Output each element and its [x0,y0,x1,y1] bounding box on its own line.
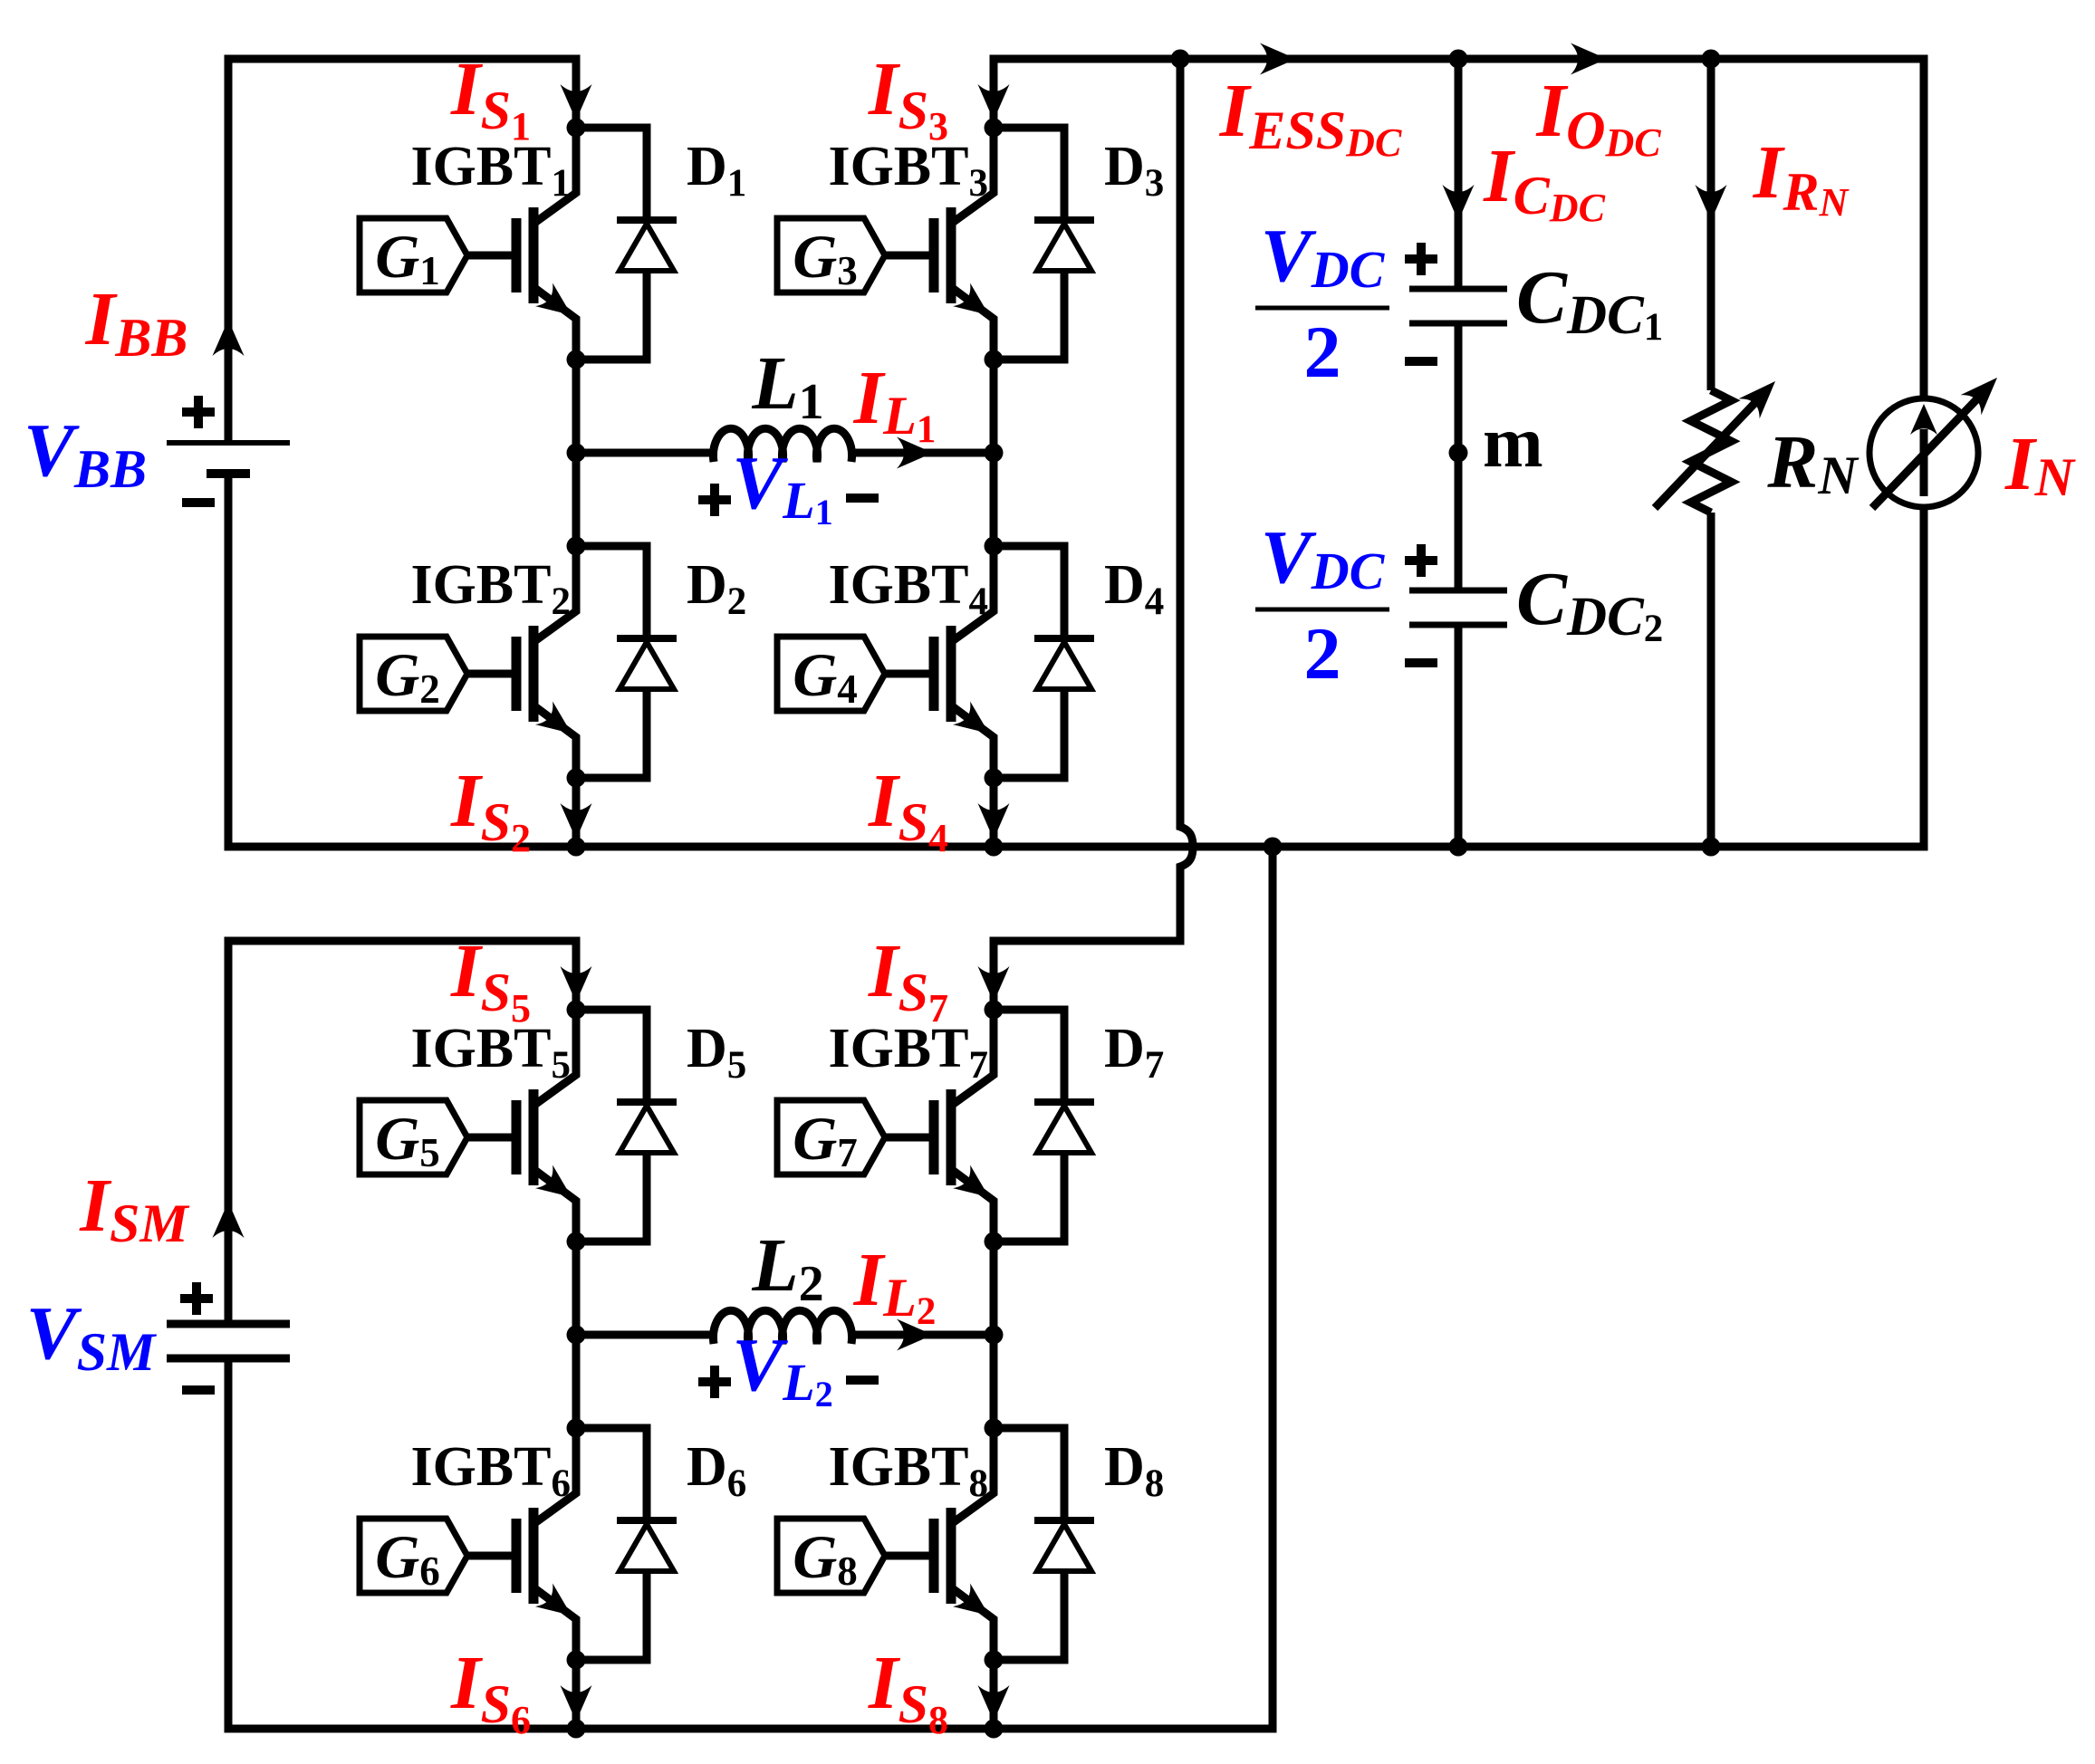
node: emitter of IGBT8 [985,1651,1004,1670]
wire: battery VSM + up, along bottom-bridge top bus, down to S5 [228,941,576,1324]
svg-text:IGBT4: IGBT4 [828,554,988,623]
node: leg8 on bottom bus [985,1720,1004,1739]
gate flag G6 [360,1519,467,1593]
node m (DC midpoint) [1449,444,1468,463]
current arrow IRN (down) [1696,185,1727,221]
svg-text:m: m [1483,403,1543,483]
fraction bar lower [1255,608,1389,612]
node: return link on bottom bus [1264,838,1283,857]
transistor IGBT2 (IGBT symbol) [467,546,576,778]
svg-text:IGBT3: IGBT3 [828,136,988,205]
node: leg6 on bottom bus [567,1720,586,1739]
node: leg1 midpoint (L1 left) [567,444,586,463]
wire: leg7 midpoint segment [990,1242,998,1428]
diode D2 (freewheeling, antiparallel) [576,546,677,778]
battery VSM minus sign [182,1385,215,1395]
IN variability arrow (diagonal) [1872,378,1997,508]
node: collector of IGBT5 [567,1001,586,1020]
VL2 plus sign [698,1366,731,1398]
wire: battery VBB - down, along bottom bus, up to IN branch [228,474,1924,847]
battery VSM (supercap module) [167,1324,290,1358]
transistor IGBT3 (IGBT symbol) [885,128,994,360]
gate flag G7 [777,1100,885,1174]
current arrow IL1 (right) [897,437,933,469]
node: collector of IGBT3 [985,119,1004,138]
node: emitter of IGBT1 [567,350,586,369]
VL1 minus sign [846,494,879,503]
battery VBB minus sign [182,498,215,507]
transistor IGBT4 (IGBT symbol) [885,546,994,778]
current arrow IS8 (down) [978,1685,1010,1721]
wire: L1 left lead [576,449,717,457]
transistor IGBT8 (IGBT symbol) [885,1428,994,1660]
wire: leg5 midpoint segment [572,1242,581,1428]
inductor L2 [713,1310,851,1344]
node: leg5 midpoint (L2 left) [567,1326,586,1345]
gate flag G2 [360,637,467,711]
svg-text:IGBT7: IGBT7 [828,1018,988,1087]
diode D4 (freewheeling, antiparallel) [994,546,1094,778]
diode D6 (freewheeling, antiparallel) [576,1428,677,1660]
node: emitter of IGBT5 [567,1232,586,1251]
svg-text:2: 2 [1304,612,1341,695]
current source IN inner arrow (up) [1910,404,1937,496]
svg-text:IGBT8: IGBT8 [828,1436,988,1505]
current arrow IS1 (down) [561,84,592,120]
inductor L1 [714,428,852,462]
wire: leg8 bottom stub [990,1659,998,1729]
wire: battery VSM - down, along bottom bus, up to return link [228,847,1273,1729]
node: emitter of IGBT7 [985,1232,1004,1251]
wire: leg6 bottom stub [572,1659,581,1729]
wire: L2 right lead [848,1331,994,1339]
node: leg1 on bottom bus [567,838,586,857]
diode D3 (freewheeling, antiparallel) [994,128,1094,360]
node: RN column on bottom bus [1702,838,1721,857]
node: collector of IGBT7 [985,1001,1004,1020]
current source IN (circle) [1869,398,1978,507]
wire: L2 left lead [576,1331,717,1339]
transistor IGBT7 (IGBT symbol) [885,1010,994,1242]
current arrow IS5 (down) [561,966,592,1002]
diode D7 (freewheeling, antiparallel) [994,1010,1094,1242]
battery VBB [167,443,290,474]
wire: capacitor column top [1455,59,1463,289]
node: emitter of IGBT3 [985,350,1004,369]
fraction bar upper [1255,306,1389,311]
capacitor CDC1 [1409,289,1507,323]
wire: top bus right segment from S3 over to IN branch and down [994,59,1924,398]
CDC1 plus sign [1405,243,1437,275]
node: leg7 midpoint (L2 right) [985,1326,1004,1345]
wire: L1 right lead [848,449,994,457]
wire: RN column top [1707,59,1715,390]
wire: leg2 bottom stub [990,777,998,847]
wire: ESS vertical link x=1303 with jump over bottom bus, to leg7 [994,59,1193,1010]
transistor IGBT5 (IGBT symbol) [467,1010,576,1242]
node: collector of IGBT4 [985,537,1004,556]
current arrow IS7 (down) [978,966,1010,1002]
current arrow IBB (up) [213,320,245,356]
diode D8 (freewheeling, antiparallel) [994,1428,1094,1660]
svg-text:IGBT5: IGBT5 [410,1018,571,1087]
node: leg2 midpoint (L1 right) [985,444,1004,463]
gate flag G5 [360,1100,467,1174]
wire: leg2 midpoint segment [990,360,998,546]
node: emitter of IGBT6 [567,1651,586,1670]
current arrow ISM (up) [213,1202,245,1238]
node: collector of IGBT6 [567,1419,586,1438]
battery VBB plus sign [182,396,215,428]
wire: leg1 bottom stub [572,777,581,847]
node: emitter of IGBT4 [985,769,1004,788]
wire: battery VBB + up, along top bus left segment, down to S1 [228,59,576,443]
node: leg2 on bottom bus [985,838,1004,857]
node: capacitor column on bottom bus [1449,838,1468,857]
transistor IGBT1 (IGBT symbol) [467,128,576,360]
current arrow ICDC (down) [1443,185,1475,221]
CDC2 minus sign [1405,658,1437,667]
CDC1 minus sign [1405,357,1437,366]
wire: capacitor column bottom [1455,625,1463,847]
diode D1 (freewheeling, antiparallel) [576,128,677,360]
gate flag G8 [777,1519,885,1593]
wire: RN column bottom [1707,513,1715,847]
CDC2 plus sign [1405,544,1437,577]
resistor RN (variable, zigzag) [1691,390,1732,513]
diode D5 (freewheeling, antiparallel) [576,1010,677,1242]
current arrow IESSDC (right) [1260,43,1296,75]
VL1 plus sign [698,484,731,516]
current arrow IS6 (down) [561,1685,592,1721]
current arrow IS2 (down) [561,803,592,839]
node: collector of IGBT1 [567,119,586,138]
current arrow IS3 (down) [978,84,1010,120]
node: capacitor column on top bus [1449,50,1468,69]
current arrow IL2 (right) [897,1319,933,1351]
node: emitter of IGBT2 [567,769,586,788]
wire: between CDC1 and CDC2 [1455,323,1463,590]
node: ESS link on top bus [1171,50,1190,69]
svg-text:IGBT2: IGBT2 [410,554,571,623]
gate flag G1 [360,218,467,292]
VL2 minus sign [846,1376,879,1385]
svg-text:IGBT1: IGBT1 [410,136,571,205]
node: collector of IGBT8 [985,1419,1004,1438]
RN variability arrow (diagonal) [1655,381,1775,508]
current arrow IS4 (down) [978,803,1010,839]
svg-text:IGBT6: IGBT6 [410,1436,571,1505]
node: RN column on top bus [1702,50,1721,69]
current arrow IODC (right) [1571,43,1607,75]
transistor IGBT6 (IGBT symbol) [467,1428,576,1660]
svg-text:2: 2 [1304,311,1341,393]
wire: leg1 midpoint segment [572,360,581,546]
capacitor CDC2 [1409,590,1507,625]
battery VSM plus sign [180,1282,213,1315]
node: collector of IGBT2 [567,537,586,556]
gate flag G4 [777,637,885,711]
gate flag G3 [777,218,885,292]
